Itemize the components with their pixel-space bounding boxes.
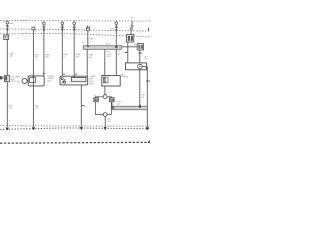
svg-text:PRESS: PRESS <box>121 77 129 79</box>
svg-text:AUX: AUX <box>134 43 139 46</box>
svg-text:A/C: A/C <box>131 16 135 19</box>
svg-text:FAN: FAN <box>9 22 14 25</box>
svg-text:(K5): (K5) <box>47 81 51 83</box>
svg-text:BLU: BLU <box>118 54 123 56</box>
svg-text:ASM: ASM <box>89 82 94 85</box>
svg-text:IGN: IGN <box>110 28 114 30</box>
svg-text:S102: S102 <box>106 44 112 46</box>
svg-text:SWITCH: SWITCH <box>10 81 19 83</box>
